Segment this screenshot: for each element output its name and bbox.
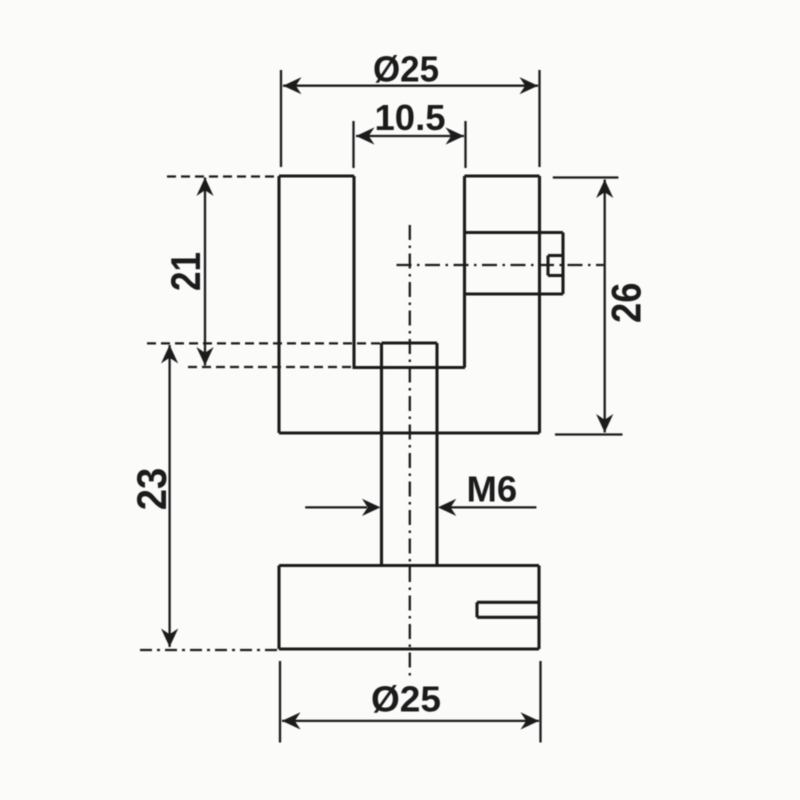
svg-text:21: 21 xyxy=(162,252,209,291)
svg-text:10.5: 10.5 xyxy=(375,97,446,138)
svg-text:M6: M6 xyxy=(467,469,518,510)
svg-text:Ø25: Ø25 xyxy=(371,679,441,720)
svg-text:Ø25: Ø25 xyxy=(373,48,439,89)
svg-text:23: 23 xyxy=(128,468,175,511)
svg-text:26: 26 xyxy=(603,282,650,323)
